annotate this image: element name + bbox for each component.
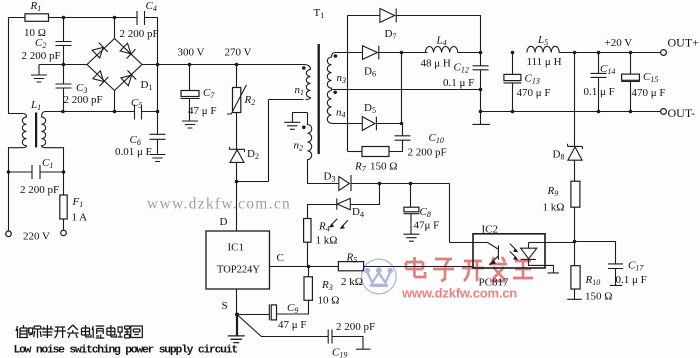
capacitor C2	[56, 18, 72, 65]
capacitor C4	[137, 11, 145, 25]
wire S pin	[236, 289, 238, 315]
node 270V	[235, 63, 239, 67]
svg-text:R2: R2	[244, 94, 256, 107]
svg-text:R5: R5	[346, 252, 358, 265]
ground at S thick	[236, 315, 238, 336]
diode D6	[363, 46, 378, 60]
resistor R7	[362, 147, 389, 157]
svg-text:TOP224Y: TOP224Y	[217, 265, 260, 276]
svg-text:2 200 pF: 2 200 pF	[22, 50, 61, 62]
svg-text:C1: C1	[42, 157, 53, 170]
svg-text:R4: R4	[318, 221, 330, 234]
svg-text:C7: C7	[203, 87, 215, 100]
node plus rail D8	[573, 51, 577, 55]
svg-text:OUT-: OUT-	[668, 106, 696, 120]
ground at C2 wire	[31, 65, 47, 83]
svg-text:1 kΩ: 1 kΩ	[543, 202, 565, 214]
diode D5	[362, 117, 375, 131]
svg-text:S: S	[222, 300, 228, 312]
svg-text:0.1 μ F: 0.1 μ F	[443, 77, 474, 89]
resistor R10	[574, 242, 576, 266]
watermark red chinese characters	[406, 257, 533, 281]
svg-text:220 V: 220 V	[23, 231, 50, 243]
inductor L5	[527, 46, 661, 52]
node C8 top	[409, 182, 413, 186]
resistor R3	[308, 267, 310, 277]
svg-text:1 kΩ: 1 kΩ	[316, 235, 338, 247]
svg-text:+20 V: +20 V	[605, 37, 633, 49]
svg-text:www.dzkfw.com.cn: www.dzkfw.com.cn	[147, 196, 291, 213]
opto coupler IC2 box	[473, 234, 545, 268]
wire left rail	[9, 18, 23, 114]
node C4/C5 line	[156, 63, 160, 67]
svg-text:470 μ F: 470 μ F	[632, 87, 666, 99]
svg-text:C10: C10	[429, 132, 444, 145]
svg-text:L1: L1	[30, 99, 41, 112]
bridge diode bottom-right	[120, 70, 136, 86]
diode D7	[348, 15, 380, 17]
wire to opto collector	[449, 184, 451, 243]
capacitor C3	[56, 65, 72, 112]
svg-text:D3: D3	[324, 171, 336, 184]
capacitor C9 electrolytic	[268, 304, 270, 320]
wire lower AC	[45, 111, 135, 113]
resistor R5	[338, 262, 363, 271]
node plus rail C14	[597, 51, 601, 55]
node out minus C15	[629, 110, 633, 114]
capacitor C5	[135, 105, 158, 120]
capacitor C19	[237, 315, 370, 350]
svg-text:L4: L4	[436, 35, 447, 48]
wire node to n1 bottom	[237, 100, 304, 182]
led arrows at R4 D4	[331, 219, 348, 228]
svg-text:2 200 pF: 2 200 pF	[408, 147, 447, 159]
svg-text:C14: C14	[600, 63, 615, 76]
wire C pin	[270, 266, 339, 268]
node R9 bottom	[573, 240, 577, 244]
svg-text:300 V: 300 V	[178, 47, 205, 59]
svg-text:47 μ F: 47 μ F	[278, 319, 307, 331]
inductor L4	[425, 47, 480, 53]
svg-text:R1: R1	[30, 0, 42, 13]
wire secondary return	[332, 89, 481, 91]
svg-text:D8: D8	[553, 149, 565, 162]
wire out minus rail	[481, 111, 661, 113]
capacitor C15 electrolytic	[630, 53, 632, 75]
svg-text:Low noise switching power supp: Low noise switching power supply circuit	[14, 345, 238, 357]
svg-text:D7: D7	[385, 28, 397, 41]
wire top rail right	[145, 18, 158, 65]
terminal 220V left	[6, 231, 12, 237]
resistor R1	[25, 14, 49, 21]
node D6 D7	[400, 51, 404, 55]
wire D7 left vertical	[347, 16, 349, 152]
svg-text:T1: T1	[314, 7, 325, 20]
capacitor C13 electrolytic	[512, 53, 514, 75]
svg-text:C: C	[277, 252, 284, 264]
svg-text:0.1 μ F: 0.1 μ F	[616, 274, 647, 286]
winding n4	[327, 91, 362, 124]
capacitor C7 electrolytic	[189, 65, 191, 91]
svg-text:R7: R7	[354, 161, 367, 174]
svg-text:0.1 μ F: 0.1 μ F	[584, 86, 615, 98]
svg-text:R9: R9	[547, 185, 559, 198]
svg-text:n3: n3	[337, 72, 347, 85]
ground at C12	[472, 112, 490, 125]
opto led D	[521, 243, 559, 273]
svg-text:2 kΩ: 2 kΩ	[341, 276, 363, 288]
ground at C6	[150, 155, 166, 162]
node D5 cathode	[400, 122, 404, 126]
svg-text:PC817: PC817	[479, 277, 509, 289]
capacitor C14	[591, 53, 607, 112]
terminal OUT+	[661, 50, 667, 56]
capacitor C17	[575, 242, 624, 286]
bridge rectifier D1 diamond	[87, 39, 142, 91]
svg-text:2 200 pF: 2 200 pF	[64, 94, 103, 106]
svg-text:n2: n2	[294, 140, 304, 153]
svg-text:C15: C15	[643, 71, 658, 84]
svg-text:C13: C13	[525, 73, 540, 86]
svg-text:47μ F: 47μ F	[414, 220, 440, 232]
capacitor C12	[473, 53, 489, 112]
wire D8 branch	[574, 53, 576, 147]
bridge diode top-left	[92, 43, 108, 59]
svg-text:R10: R10	[585, 274, 601, 287]
ground at C8	[403, 234, 419, 241]
watermark W glyph	[365, 267, 394, 287]
node R4 R3	[307, 265, 311, 269]
fuse F1	[63, 165, 65, 230]
svg-text:L5: L5	[537, 34, 548, 47]
capacitor C1	[9, 165, 64, 179]
svg-text:0.01 μ F: 0.01 μ F	[115, 146, 152, 158]
wire top rail mid	[49, 17, 138, 19]
svg-text:n1: n1	[295, 84, 305, 97]
svg-text:IC1: IC1	[228, 242, 245, 254]
node C5 right	[156, 110, 160, 114]
svg-text:C5: C5	[131, 97, 142, 110]
node plus rail C15	[629, 51, 633, 55]
svg-text:150 Ω: 150 Ω	[370, 161, 397, 173]
svg-text:D1: D1	[141, 79, 153, 92]
node S	[235, 313, 239, 317]
ground at n2	[284, 113, 307, 130]
svg-text:48 μ H: 48 μ H	[421, 58, 451, 70]
ground at C7	[182, 121, 198, 128]
svg-text:111 μ H: 111 μ H	[527, 56, 562, 68]
svg-text:OUT+: OUT+	[668, 36, 700, 50]
opto phototransistor	[450, 243, 499, 263]
winding n3	[327, 53, 362, 91]
wire bridge right to rail	[142, 64, 305, 66]
opto light arrows	[510, 244, 517, 259]
node top C2	[62, 16, 66, 20]
svg-text:D4: D4	[352, 206, 364, 219]
diode D3	[339, 177, 350, 191]
svg-text:2 200 pF: 2 200 pF	[120, 28, 159, 40]
svg-text:IC2: IC2	[482, 224, 499, 236]
svg-text:F1: F1	[72, 196, 84, 209]
IC U1 TOP224Y box	[206, 231, 270, 289]
diode D2 zener	[230, 147, 245, 152]
svg-text:270 V: 270 V	[225, 47, 252, 59]
svg-text:47 μ F: 47 μ F	[188, 105, 217, 117]
core L1	[35, 113, 37, 148]
resistor R9	[571, 181, 580, 207]
node mid C2	[62, 63, 66, 67]
svg-text:150 Ω: 150 Ω	[585, 291, 612, 303]
wire D pin	[236, 182, 238, 232]
diode D4 led	[337, 198, 351, 209]
svg-text:10 Ω: 10 Ω	[318, 295, 340, 307]
node D4 branch	[378, 182, 382, 186]
svg-text:C19: C19	[332, 347, 347, 358]
resistor R4	[304, 219, 311, 243]
svg-text:n4: n4	[336, 107, 346, 120]
svg-text:C12: C12	[454, 62, 469, 75]
svg-text:C9: C9	[287, 302, 298, 315]
winding n1	[304, 65, 311, 100]
wire top rail left	[9, 17, 26, 19]
wire R5 to opto	[364, 266, 473, 268]
watermark W logo circle	[362, 259, 397, 294]
capacitor C6	[150, 134, 166, 154]
svg-text:R3: R3	[321, 279, 333, 292]
svg-text:C17: C17	[628, 260, 644, 273]
wire R2 to D2	[236, 113, 238, 150]
svg-text:2 200 pF: 2 200 pF	[20, 184, 59, 196]
winding n2	[308, 113, 339, 184]
node bridge bottom	[113, 110, 117, 114]
node L1 top right	[61, 110, 65, 114]
node D2 bottom	[235, 180, 239, 184]
node 300V	[188, 63, 192, 67]
bridge diode bottom-left	[92, 70, 108, 86]
resistor R2 varistor	[236, 65, 238, 88]
caption chinese title	[16, 325, 142, 338]
node top bridge	[113, 16, 117, 20]
wire C6 vertical	[157, 65, 159, 135]
svg-text:C4: C4	[146, 0, 157, 13]
svg-text:D6: D6	[364, 66, 376, 79]
svg-text:2 200 pF: 2 200 pF	[336, 321, 375, 333]
svg-text:D5: D5	[364, 102, 376, 115]
terminal 220V right	[61, 230, 67, 236]
terminal OUT-	[661, 109, 667, 115]
svg-text:C8: C8	[420, 206, 431, 219]
diode D8 zener	[568, 144, 583, 149]
svg-text:470 μ F: 470 μ F	[517, 87, 551, 99]
transformer core	[318, 44, 320, 154]
svg-text:D2: D2	[247, 148, 259, 161]
svg-text:1 A: 1 A	[72, 212, 88, 224]
wire mid horizontal	[39, 64, 87, 66]
svg-text:D: D	[220, 216, 228, 228]
capacitor C10	[389, 124, 411, 152]
bridge diode top-right	[119, 42, 135, 58]
node out minus C14	[597, 110, 601, 114]
capacitor C8 electrolytic	[410, 184, 412, 208]
